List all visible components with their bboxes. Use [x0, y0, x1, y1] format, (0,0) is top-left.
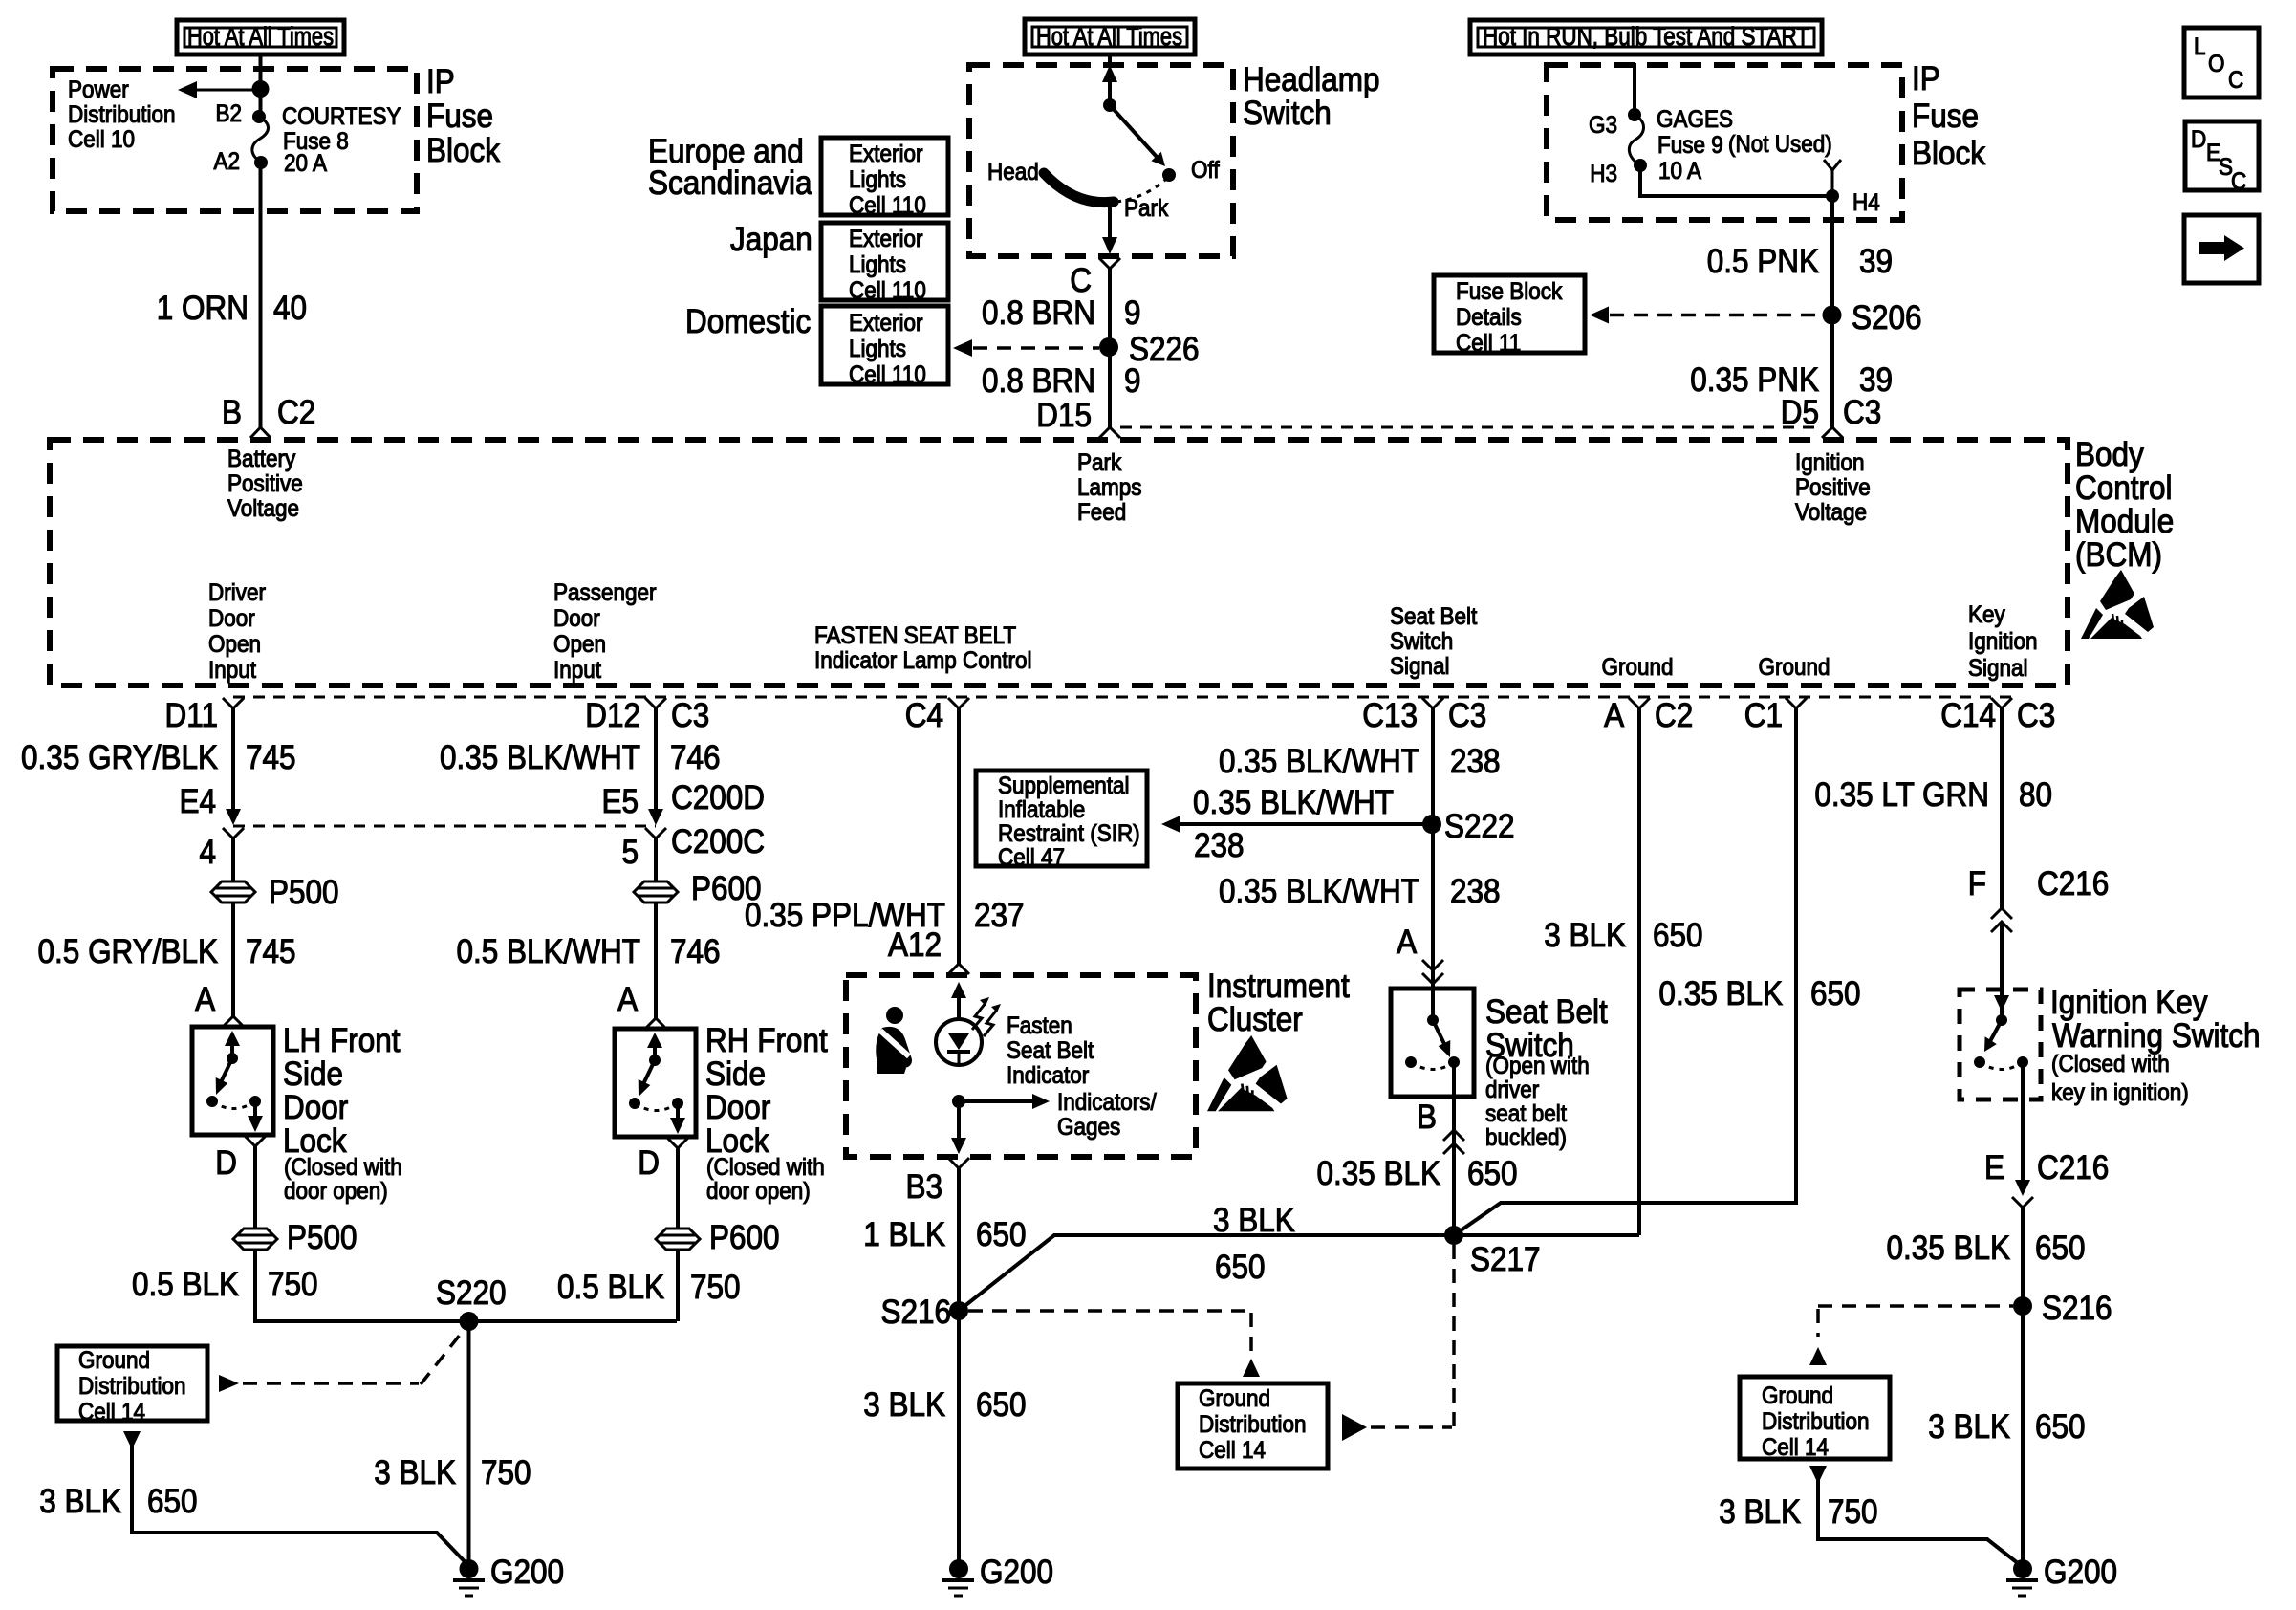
BCM pin function: FASTEN SEAT BELT Indicator Lamp Control	[814, 622, 1031, 674]
svg-text:Distribution: Distribution	[68, 101, 175, 128]
svg-text:20 A: 20 A	[284, 150, 327, 177]
Power Distribution Cell 10 label	[68, 76, 175, 153]
connector chevron at door lock A	[223, 1016, 244, 1027]
svg-text:Body: Body	[2075, 437, 2144, 474]
connector chevron at BCM D15	[1099, 427, 1120, 438]
svg-text:GAGES: GAGES	[1657, 106, 1733, 133]
node H4	[1826, 189, 1839, 203]
svg-text:key in ignition): key in ignition)	[2051, 1079, 2189, 1106]
svg-text:Exterior: Exterior	[849, 310, 923, 337]
svg-text:LH Front: LH Front	[283, 1023, 400, 1060]
svg-text:746: 746	[670, 934, 721, 971]
fuse F8 COURTESY terminal A2	[254, 156, 268, 169]
svg-text:C14: C14	[1940, 698, 1996, 735]
svg-text:Block: Block	[426, 133, 500, 170]
wire down out of cluster	[957, 1101, 961, 1140]
wire park output inside box	[1108, 204, 1112, 241]
wire arrow to Power Distribution	[195, 89, 261, 92]
svg-text:P500: P500	[269, 875, 339, 912]
svg-text:S216: S216	[880, 1295, 951, 1332]
svg-text:0.35 BLK/WHT: 0.35 BLK/WHT	[1219, 744, 1419, 781]
svg-text:Ground: Ground	[1758, 654, 1830, 681]
svg-text:Module: Module	[2075, 504, 2174, 541]
svg-text:Distribution: Distribution	[1199, 1411, 1306, 1438]
wire C4 to instrument cluster	[957, 708, 961, 965]
IP Fuse Block label (right)	[1912, 61, 1985, 173]
Ground Distribution Cell 14 box (right)	[1740, 1377, 1890, 1461]
svg-text:238: 238	[1450, 744, 1501, 781]
svg-text:S222: S222	[1444, 809, 1515, 846]
connector double chevron at seat belt switch A	[1422, 960, 1443, 970]
svg-text:A2: A2	[213, 148, 240, 175]
svg-text:0.5 BLK: 0.5 BLK	[132, 1267, 239, 1304]
wire S220 to G200	[467, 1321, 471, 1569]
fuse F8 COURTESY terminal B2	[252, 110, 266, 123]
leader arrow from ground distribution box	[219, 1375, 239, 1392]
door lock switch lever	[221, 1058, 232, 1082]
svg-text:Instrument: Instrument	[1207, 968, 1350, 1006]
svg-text:B: B	[1417, 1099, 1437, 1137]
svg-text:A: A	[1604, 698, 1625, 735]
svg-text:Voltage: Voltage	[1795, 499, 1867, 526]
dashed branch to Fuse Block Details	[1610, 314, 1822, 317]
leader arrow below right ground distribution box	[1809, 1466, 1827, 1484]
svg-text:Scandinavia: Scandinavia	[648, 165, 812, 203]
svg-text:Input: Input	[208, 657, 256, 684]
svg-text:H4: H4	[1852, 189, 1880, 216]
svg-text:B: B	[222, 395, 242, 432]
ignition switch pivot	[2000, 1008, 2004, 1020]
svg-text:745: 745	[246, 740, 296, 777]
svg-text:Cell 14: Cell 14	[78, 1399, 145, 1425]
svg-text:Door: Door	[208, 605, 255, 632]
connector chevron BCM C14	[1991, 698, 2012, 708]
svg-text:0.5 GRY/BLK: 0.5 GRY/BLK	[38, 934, 218, 971]
svg-text:Fuse 9: Fuse 9	[1657, 132, 1723, 159]
grommet P500	[211, 875, 339, 912]
svg-text:A12: A12	[888, 927, 942, 965]
wire A to ground bus	[1637, 708, 1641, 1235]
svg-text:Ground: Ground	[1199, 1385, 1270, 1412]
svg-text:Cell 14: Cell 14	[1762, 1434, 1829, 1461]
svg-text:238: 238	[1194, 828, 1245, 865]
wire to P600	[654, 838, 658, 881]
svg-text:C216: C216	[2037, 866, 2109, 903]
node to indicators/gages	[952, 1095, 965, 1108]
svg-text:Switch: Switch	[1390, 628, 1453, 655]
lamp emission arrows	[972, 1003, 986, 1030]
svg-text:Cell 10: Cell 10	[68, 126, 135, 153]
wire P600 to ground bus	[676, 1250, 680, 1321]
svg-text:Lights: Lights	[849, 166, 906, 193]
svg-text:G200: G200	[490, 1555, 564, 1592]
connector chevron C200C pin 4	[223, 828, 244, 838]
seat belt switch Q box	[1391, 989, 1474, 1097]
svg-text:Exterior: Exterior	[849, 141, 923, 167]
Exterior Lights Cell 110 box (Japan)	[821, 223, 948, 304]
RH Front Side Door Lock label	[705, 1023, 828, 1206]
door lock output arrow	[253, 1101, 257, 1119]
svg-text:0.5 PNK: 0.5 PNK	[1707, 244, 1819, 281]
fuse value label	[282, 103, 401, 177]
fuse value label	[1657, 106, 1733, 185]
svg-text:80: 80	[2019, 777, 2052, 815]
wire H4 to BCM D5	[1830, 196, 1834, 428]
svg-text:Gages: Gages	[1057, 1114, 1120, 1141]
door lock dotted travel arc	[212, 1101, 255, 1109]
wire A2 to BCM pin B	[259, 163, 263, 428]
connector chevron below cluster B3	[948, 1158, 969, 1168]
svg-text:Power: Power	[68, 76, 129, 103]
wire S217 diagonal to C1 ground	[1454, 708, 1796, 1235]
svg-text:IP: IP	[1912, 61, 1940, 98]
svg-text:D15: D15	[1036, 398, 1092, 435]
svg-text:Ground: Ground	[78, 1347, 150, 1374]
BCM pin function: Seat Belt Switch Signal	[1390, 603, 1478, 680]
LH front side door lock switch box	[192, 1027, 273, 1135]
LH Front Side Door Lock label	[283, 1023, 402, 1206]
wire C14 to ignition key warning switch	[2000, 708, 2004, 908]
seat belt switch dotted travel arc	[1411, 1062, 1454, 1070]
power label box "Hot At All Times" (left)	[177, 20, 344, 54]
svg-text:Seat Belt: Seat Belt	[1007, 1037, 1094, 1064]
splice S220	[460, 1312, 479, 1331]
svg-text:0.35 BLK/WHT: 0.35 BLK/WHT	[1193, 785, 1394, 822]
wire from contact B	[1452, 1062, 1456, 1235]
Exterior Lights Cell 110 box (Europe)	[821, 138, 948, 219]
svg-text:237: 237	[974, 898, 1025, 935]
svg-text:Battery: Battery	[227, 446, 295, 472]
svg-text:Cell 47: Cell 47	[998, 844, 1065, 871]
svg-text:Side: Side	[283, 1056, 343, 1094]
svg-text:C13: C13	[1362, 698, 1418, 735]
svg-text:S220: S220	[436, 1275, 507, 1313]
connector chevron BCM C4	[948, 698, 969, 708]
svg-text:D11: D11	[165, 698, 218, 735]
door lock switch pivot	[649, 1055, 661, 1066]
fine dashed connector line C200	[233, 825, 656, 828]
wire 3 BLK 750 to G200	[1818, 1480, 2023, 1567]
BCM pin function: Battery Positive Voltage	[227, 446, 303, 522]
ignition switch lever	[1989, 1020, 2002, 1043]
svg-text:0.35 LT GRN: 0.35 LT GRN	[1814, 777, 1989, 815]
splice S216	[949, 1301, 968, 1320]
splice S216 (right)	[2013, 1296, 2032, 1316]
Instrument Cluster label	[1207, 968, 1350, 1039]
splice S222	[1422, 815, 1441, 834]
connector C216 double chevron	[1991, 908, 2012, 919]
svg-text:C: C	[2228, 67, 2243, 94]
svg-text:Ignition: Ignition	[1968, 628, 2038, 655]
svg-text:Cell 11: Cell 11	[1456, 330, 1521, 357]
connector chevron C200C pin 5	[645, 828, 666, 838]
svg-text:Feed: Feed	[1077, 499, 1126, 526]
splice S206	[1823, 306, 1842, 325]
power label box "Hot In RUN, Bulb Test And START"	[1470, 20, 1822, 54]
svg-text:G3: G3	[1589, 112, 1617, 139]
svg-text:Control: Control	[2075, 470, 2173, 508]
connector arrow into C200	[648, 809, 663, 825]
svg-text:Lights: Lights	[849, 251, 906, 278]
connector chevron below door lock D	[667, 1138, 688, 1148]
svg-text:0.35 BLK: 0.35 BLK	[1658, 976, 1783, 1013]
svg-text:3 BLK: 3 BLK	[1213, 1203, 1295, 1240]
door lock switch arrow up	[230, 1044, 234, 1058]
IP Fuse Block label	[426, 64, 500, 170]
BCM pin function: Driver Door Open Input	[208, 579, 266, 684]
leader arrow right of center ground distribution box	[1342, 1414, 1367, 1441]
Ignition Key Warning Switch label	[2050, 985, 2261, 1107]
svg-text:D12: D12	[585, 698, 640, 735]
svg-text:Warning Switch: Warning Switch	[2052, 1018, 2261, 1055]
svg-text:G200: G200	[2044, 1555, 2117, 1592]
connector chevron BCM A/C2	[1629, 698, 1650, 708]
svg-text:IP: IP	[426, 64, 455, 101]
svg-text:A: A	[1397, 925, 1418, 962]
svg-text:Driver: Driver	[208, 579, 266, 606]
grommet P600 (lower)	[656, 1220, 780, 1257]
svg-text:Fasten: Fasten	[1007, 1012, 1072, 1039]
svg-text:Seat Belt: Seat Belt	[1485, 994, 1608, 1032]
svg-text:Details: Details	[1456, 304, 1522, 331]
svg-text:0.8 BRN: 0.8 BRN	[982, 295, 1095, 333]
svg-text:Ignition: Ignition	[1795, 449, 1865, 476]
svg-text:39: 39	[1859, 244, 1893, 281]
ignition switch dotted travel arc	[1980, 1062, 2023, 1070]
svg-text:(Not Used): (Not Used)	[1728, 131, 1832, 158]
wire into switch	[2000, 922, 2004, 1000]
wire headlamp C to BCM D15	[1108, 269, 1112, 428]
svg-text:650: 650	[1467, 1156, 1518, 1193]
IP fuse block dashed box (left)	[53, 69, 417, 211]
svg-text:C3: C3	[671, 698, 709, 735]
fine dashed connector line under BCM	[233, 696, 2012, 699]
SIR cell reference box	[976, 771, 1147, 871]
svg-text:650: 650	[1215, 1250, 1266, 1287]
svg-text:Open: Open	[208, 631, 261, 658]
svg-text:C4: C4	[905, 698, 943, 735]
connector chevron at door lock A	[645, 1018, 666, 1029]
headlamp switch lever	[1110, 105, 1157, 157]
fuse F9 GAGES element	[1629, 115, 1643, 165]
dashed leader from S217	[1452, 1245, 1456, 1427]
wire S216 to G200	[957, 1311, 961, 1569]
arrow up inside cluster	[957, 994, 961, 1019]
svg-text:G200: G200	[980, 1555, 1053, 1592]
svg-text:0.5 BLK/WHT: 0.5 BLK/WHT	[457, 934, 640, 971]
svg-text:S216: S216	[2042, 1291, 2112, 1328]
svg-text:Switch: Switch	[1243, 96, 1332, 133]
svg-text:0.35 BLK/WHT: 0.35 BLK/WHT	[440, 740, 640, 777]
wire D to P500	[253, 1146, 257, 1228]
svg-text:Side: Side	[705, 1056, 766, 1094]
connector chevron at BCM D5	[1822, 427, 1843, 438]
dashed leader S216 to ground distribution	[968, 1309, 1247, 1313]
svg-text:10 A: 10 A	[1658, 158, 1701, 185]
connector chevron below headlamp box	[1099, 258, 1120, 269]
door lock contacts	[206, 1096, 218, 1107]
svg-text:(Closed with: (Closed with	[2051, 1051, 2170, 1077]
svg-text:Cluster: Cluster	[1207, 1002, 1303, 1039]
svg-text:C: C	[2231, 168, 2246, 195]
Fasten Seat Belt Indicator label	[1007, 1012, 1094, 1089]
leader arrow below ground distribution box	[123, 1431, 141, 1449]
svg-text:0.5 BLK: 0.5 BLK	[557, 1270, 664, 1307]
svg-text:Signal: Signal	[1968, 655, 2028, 682]
Ground Distribution Cell 14 box (left)	[57, 1346, 207, 1425]
svg-text:Japan: Japan	[730, 222, 812, 259]
wire 3 BLK 650 to G200	[132, 1446, 469, 1566]
svg-text:Ignition Key: Ignition Key	[2050, 985, 2208, 1022]
svg-text:Positive: Positive	[227, 470, 303, 497]
svg-text:Input: Input	[553, 657, 601, 684]
svg-text:C216: C216	[2037, 1150, 2109, 1187]
ground G200 (center)	[942, 1555, 1053, 1596]
svg-text:O: O	[2208, 51, 2225, 77]
svg-text:P500: P500	[287, 1220, 357, 1257]
svg-text:Door: Door	[553, 605, 600, 632]
svg-text:C1: C1	[1744, 698, 1783, 735]
svg-text:Hot At All Times: Hot At All Times	[187, 22, 334, 51]
door lock output arrow	[676, 1103, 680, 1120]
door lock dotted travel arc	[635, 1103, 678, 1111]
connector chevron BCM D11	[223, 698, 244, 708]
svg-text:0.35 BLK/WHT: 0.35 BLK/WHT	[1219, 874, 1419, 911]
IP fuse block dashed box (right)	[1547, 65, 1902, 220]
power label box "Hot At All Times" (middle)	[1025, 19, 1195, 54]
wire H3 to H4	[1640, 165, 1832, 196]
svg-text:Open: Open	[553, 631, 606, 658]
svg-text:D: D	[638, 1145, 660, 1183]
svg-text:Indicator: Indicator	[1007, 1062, 1089, 1089]
svg-text:Distribution: Distribution	[78, 1373, 185, 1400]
svg-text:9: 9	[1124, 295, 1141, 333]
Headlamp Switch label	[1243, 62, 1380, 133]
svg-text:H3: H3	[1590, 161, 1617, 187]
svg-text:3 BLK: 3 BLK	[1544, 918, 1626, 955]
svg-text:Distribution: Distribution	[1762, 1408, 1869, 1435]
svg-text:0.35 GRY/BLK: 0.35 GRY/BLK	[21, 740, 218, 777]
connector chevron at BCM pin B	[250, 427, 271, 438]
BCM U1 dashed box	[50, 440, 2068, 685]
svg-text:F: F	[1968, 866, 1986, 903]
svg-text:Ground: Ground	[1601, 654, 1673, 681]
svg-text:C3: C3	[1448, 698, 1486, 735]
svg-text:D: D	[2191, 126, 2206, 153]
svg-text:Exterior: Exterior	[849, 226, 923, 252]
door lock switch pivot	[227, 1053, 238, 1064]
svg-text:650: 650	[1653, 918, 1703, 955]
forward arrow box	[2184, 215, 2259, 283]
fuse F8 COURTESY element	[252, 117, 269, 163]
Ground Distribution Cell 14 box (center)	[1178, 1383, 1328, 1469]
svg-text:650: 650	[976, 1387, 1027, 1425]
ground G200	[453, 1555, 564, 1596]
svg-text:C3: C3	[1843, 395, 1881, 432]
RH front side door lock switch box	[615, 1029, 696, 1137]
svg-text:746: 746	[670, 740, 721, 777]
svg-text:E4: E4	[179, 784, 216, 821]
connector chevron BCM D12	[645, 698, 666, 708]
svg-text:B3: B3	[905, 1169, 942, 1207]
BCM pin function: Park Lamps Feed	[1077, 449, 1142, 526]
svg-text:Positive: Positive	[1795, 474, 1871, 501]
svg-text:Door: Door	[283, 1090, 348, 1127]
svg-text:Head: Head	[987, 159, 1039, 185]
connector chevron (Not Used)	[1824, 160, 1841, 170]
fuse F9 GAGES terminal G3	[1628, 108, 1641, 121]
connector chevron BCM C1	[1786, 698, 1807, 708]
door lock contacts	[629, 1098, 640, 1109]
svg-text:E: E	[1984, 1150, 2004, 1187]
svg-text:650: 650	[1810, 976, 1861, 1013]
svg-text:650: 650	[2035, 1230, 2086, 1268]
fuse F9 GAGES terminal H3	[1634, 159, 1647, 172]
svg-text:C2: C2	[277, 395, 315, 432]
svg-text:D5: D5	[1781, 395, 1819, 432]
svg-text:L: L	[2194, 33, 2206, 60]
svg-text:750: 750	[481, 1455, 531, 1492]
svg-text:(BCM): (BCM)	[2075, 537, 2162, 575]
wire S216 diagonal to ground bus	[959, 1235, 1639, 1311]
svg-text:COURTESY: COURTESY	[282, 103, 401, 130]
svg-text:Domestic: Domestic	[685, 304, 811, 341]
fasten seat belt indicator lamp	[936, 1019, 982, 1065]
svg-text:40: 40	[273, 291, 307, 328]
svg-text:3 BLK: 3 BLK	[1928, 1409, 2010, 1447]
svg-text:Indicator Lamp Control: Indicator Lamp Control	[814, 647, 1031, 674]
label Europe and Scandinavia	[648, 134, 812, 203]
Body Control Module label	[2075, 437, 2174, 575]
wire to S216	[2021, 1207, 2025, 1569]
svg-text:C3: C3	[2017, 698, 2055, 735]
fine dashed connector line D15 to D5	[1120, 426, 1818, 429]
wire from switch contact E	[2021, 1062, 2025, 1184]
ESD sensitive symbol (instrument cluster)	[1207, 1035, 1288, 1111]
wire P500 to ground bus	[255, 1250, 677, 1321]
headlamp switch wiper arc (thick)	[1044, 173, 1114, 203]
svg-text:Seat Belt: Seat Belt	[1390, 603, 1478, 630]
svg-text:Indicators/: Indicators/	[1057, 1089, 1157, 1116]
svg-text:A: A	[195, 982, 216, 1019]
wire feed into headlamp switch	[1108, 54, 1112, 67]
BCM pin function: Key Ignition Signal	[1968, 601, 2038, 682]
connector arrow into C200	[226, 809, 241, 825]
Exterior Lights Cell 110 box (Domestic)	[821, 306, 948, 388]
svg-text:Hot In RUN, Bulb Test And STAR: Hot In RUN, Bulb Test And START	[1483, 22, 1809, 51]
headlamp switch dotted travel arc	[1116, 180, 1165, 202]
svg-text:A: A	[617, 982, 639, 1019]
svg-text:Cell 14: Cell 14	[1199, 1437, 1266, 1464]
wire to P500	[231, 838, 235, 881]
svg-text:3 BLK: 3 BLK	[863, 1387, 945, 1425]
svg-text:C200C: C200C	[671, 824, 765, 861]
svg-text:Cell 110: Cell 110	[849, 361, 926, 388]
svg-text:Passenger: Passenger	[553, 579, 657, 606]
svg-text:E5: E5	[601, 784, 639, 821]
connector double chevron below seat belt switch	[1443, 1130, 1464, 1141]
wire D to P600	[676, 1148, 680, 1228]
svg-text:Headlamp: Headlamp	[1243, 62, 1380, 99]
svg-text:Fuse: Fuse	[1912, 98, 1979, 136]
connector chevron below door lock D	[245, 1136, 266, 1146]
svg-text:Fuse Block: Fuse Block	[1456, 278, 1562, 305]
svg-text:0.35 BLK: 0.35 BLK	[1316, 1156, 1440, 1193]
svg-text:750: 750	[690, 1270, 741, 1307]
svg-text:3 BLK: 3 BLK	[39, 1484, 121, 1521]
svg-text:238: 238	[1450, 874, 1501, 911]
wire B3 to S216	[957, 1168, 961, 1311]
